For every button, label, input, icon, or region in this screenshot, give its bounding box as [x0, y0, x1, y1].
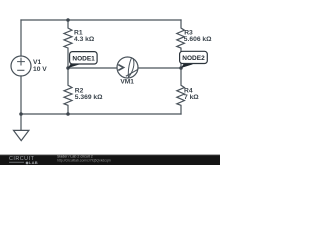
svg-text:5.369 kΩ: 5.369 kΩ: [75, 94, 103, 101]
svg-text:10 V: 10 V: [33, 66, 47, 73]
svg-text:5.606 kΩ: 5.606 kΩ: [184, 36, 212, 43]
svg-text:http://circuitlab.com/c/7fq5Qx: http://circuitlab.com/c/7fq5Qxkdcqm: [57, 158, 111, 162]
svg-text:4.3 kΩ: 4.3 kΩ: [74, 36, 95, 43]
svg-text:◆LAB: ◆LAB: [25, 160, 39, 165]
svg-text:7 kΩ: 7 kΩ: [184, 94, 199, 101]
svg-text:NODE2: NODE2: [182, 55, 205, 62]
svg-text:NODE1: NODE1: [72, 55, 95, 62]
svg-text:VM1: VM1: [120, 78, 134, 85]
